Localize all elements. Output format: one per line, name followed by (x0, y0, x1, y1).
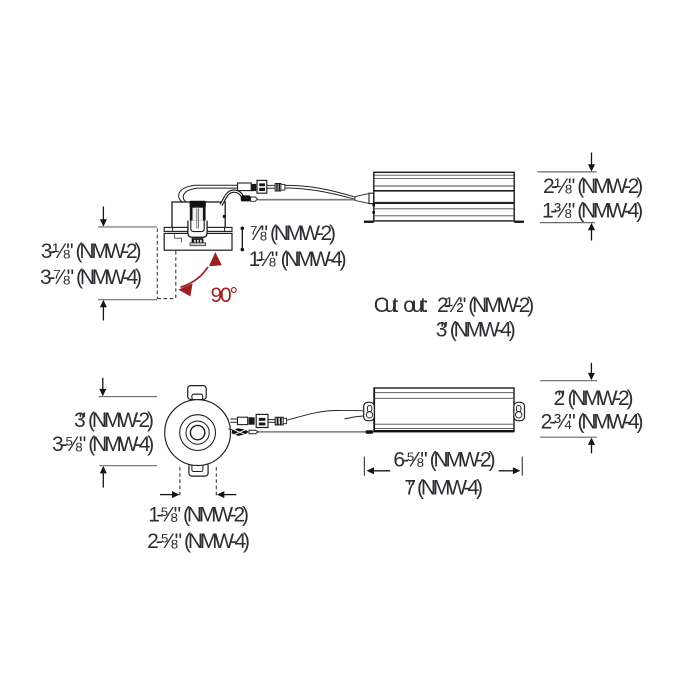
svg-text:1-⅜": 1-⅜" (542, 199, 575, 222)
svg-text:2-¾": 2-¾" (541, 411, 576, 434)
svg-text:1-⅝": 1-⅝" (148, 504, 181, 527)
svg-text:Cut: Cut (374, 294, 399, 317)
svg-text:2-⅛": 2-⅛" (543, 175, 575, 198)
svg-text:3": 3" (74, 409, 86, 432)
svg-text:3": 3" (436, 319, 448, 342)
svg-text:2-⅝": 2-⅝" (147, 530, 182, 553)
svg-text:(NMW-4): (NMW-4) (281, 248, 347, 271)
svg-text:3-⅛": 3-⅛" (41, 240, 74, 263)
svg-text:(NMW-4): (NMW-4) (88, 433, 154, 456)
svg-text:2": 2" (554, 387, 566, 410)
svg-text:(NMW-2): (NMW-2) (568, 387, 634, 410)
svg-text:(NMW-2): (NMW-2) (270, 222, 336, 245)
svg-text:2-½": 2-½" (437, 294, 466, 317)
svg-text:(NMW-2): (NMW-2) (430, 448, 496, 471)
svg-text:(NMW-2): (NMW-2) (577, 175, 643, 198)
svg-text:(NMW-2): (NMW-2) (88, 409, 154, 432)
svg-text:(NMW-2): (NMW-2) (183, 504, 249, 527)
svg-text:(NMW-4): (NMW-4) (578, 411, 644, 434)
svg-text:(NMW-4): (NMW-4) (577, 199, 643, 222)
svg-text:(NMW-2): (NMW-2) (468, 294, 534, 317)
svg-text:⅞": ⅞" (249, 222, 268, 245)
svg-text:out:: out: (403, 294, 429, 317)
svg-text:90°: 90° (211, 284, 239, 307)
svg-text:1-⅛": 1-⅛" (249, 248, 279, 271)
svg-text:3-⅞": 3-⅞" (40, 266, 74, 289)
svg-text:(NMW-4): (NMW-4) (76, 266, 142, 289)
svg-text:3-⅝": 3-⅝" (52, 433, 86, 456)
svg-text:(NMW-4): (NMW-4) (184, 530, 250, 553)
svg-text:(NMW-4): (NMW-4) (450, 319, 516, 342)
svg-text:(NMW-2): (NMW-2) (76, 240, 142, 263)
svg-text:7": 7" (404, 477, 416, 500)
svg-text:6-⅝": 6-⅝" (393, 448, 427, 471)
svg-text:(NMW-4): (NMW-4) (417, 477, 483, 500)
